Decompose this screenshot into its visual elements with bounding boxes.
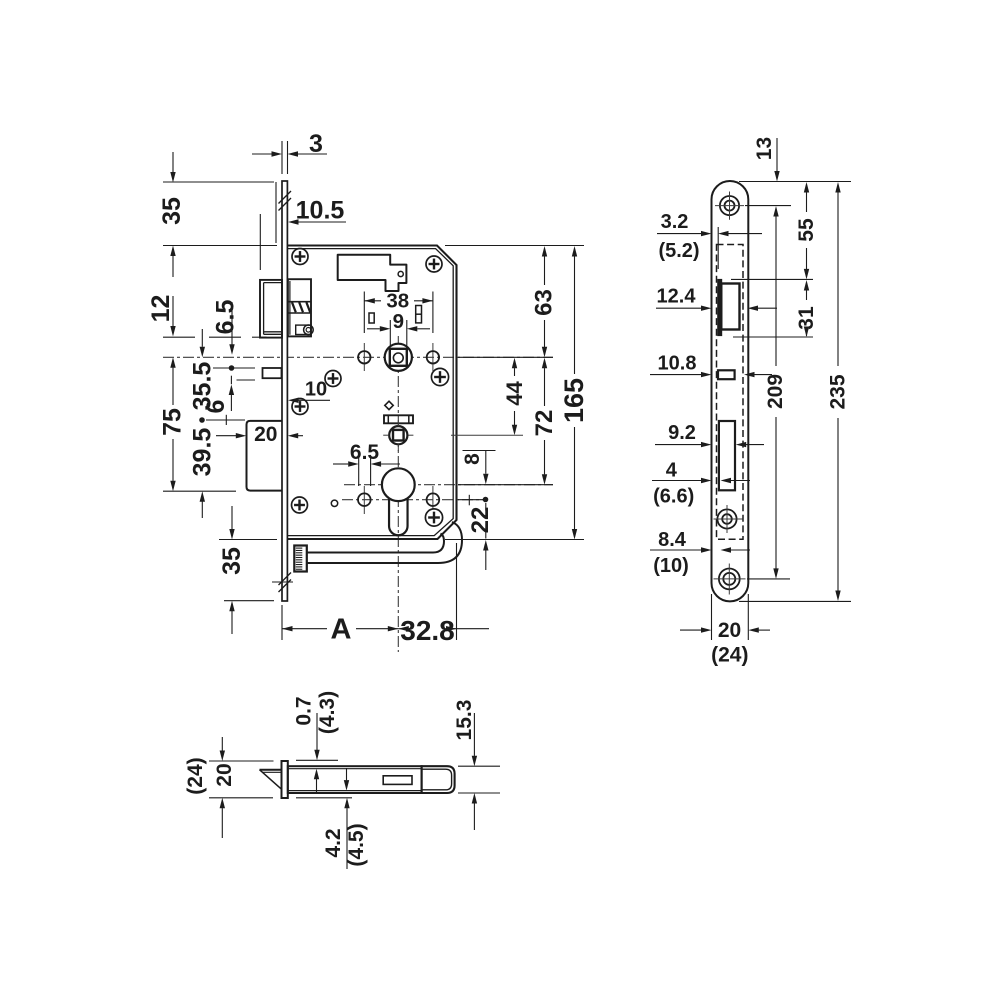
svg-text:(4.5): (4.5) xyxy=(345,823,368,866)
svg-text:22: 22 xyxy=(467,507,494,534)
svg-text:(6.6): (6.6) xyxy=(653,486,694,508)
follower outer circle xyxy=(385,344,412,371)
dim 72 xyxy=(542,358,547,369)
auxiliary pin xyxy=(263,368,282,378)
box 10.8 xyxy=(718,370,735,379)
centerline left circle xyxy=(363,343,365,371)
keeper box xyxy=(721,284,739,330)
lower spindle square xyxy=(393,430,404,441)
dim 13 arrow xyxy=(776,138,778,171)
svg-text:(10): (10) xyxy=(653,555,689,577)
dim 38 ext lines xyxy=(363,292,365,334)
svg-text:209: 209 xyxy=(764,374,787,409)
dim 35.5 dot lower xyxy=(200,418,205,423)
follower inner circle xyxy=(393,353,403,363)
screw near 10 label upper xyxy=(325,371,341,387)
latch body xyxy=(288,766,422,793)
dim 4.2 arrow up xyxy=(344,798,349,809)
centerline right circle xyxy=(432,343,434,371)
rod outer line xyxy=(307,522,462,563)
dim 8 line xyxy=(463,450,496,452)
faceplate break marks bottom xyxy=(279,580,292,593)
screw bottom-right xyxy=(425,509,442,526)
dim 35.5 line xyxy=(213,367,255,369)
dim 20 arrows xyxy=(216,435,236,437)
latch bolt nose xyxy=(260,280,282,338)
svg-text:165: 165 xyxy=(559,378,589,423)
svg-text:10.5: 10.5 xyxy=(296,197,345,225)
faceplate section xyxy=(282,761,288,798)
dim 35 top arrows xyxy=(172,152,174,172)
dim 75 arrows xyxy=(170,357,175,368)
latch body inner bottom xyxy=(288,790,422,792)
dashed case rect xyxy=(717,245,744,540)
centerline lower circles xyxy=(342,499,484,501)
dim A ext xyxy=(281,605,283,640)
tick lower xyxy=(225,415,227,425)
circle line ext right xyxy=(458,499,483,501)
dim 20 ext xyxy=(711,594,713,640)
svg-text:(5.2): (5.2) xyxy=(658,240,699,262)
dim 32.8 ext xyxy=(456,543,458,640)
svg-text:10.8: 10.8 xyxy=(658,353,697,375)
dim 8.4 arrows xyxy=(650,549,701,551)
latch housing xyxy=(288,279,311,336)
dim 8 arrow xyxy=(483,474,488,485)
latch bevel second line xyxy=(263,771,282,773)
dim 12 arrow xyxy=(172,296,174,327)
diamond xyxy=(385,401,393,409)
svg-text:20: 20 xyxy=(254,423,277,446)
dim 9 arrows xyxy=(367,328,380,330)
svg-text:4.2: 4.2 xyxy=(322,828,345,857)
dim 4 arrows xyxy=(652,480,701,482)
dim 35 top datum xyxy=(163,181,274,183)
dim 20 ext bottom xyxy=(209,797,273,799)
dim 10.5 ext xyxy=(259,214,261,270)
dim 39.5 bottom arrow xyxy=(200,491,205,502)
svg-text:55: 55 xyxy=(795,218,818,242)
svg-text:(24): (24) xyxy=(711,644,748,667)
svg-text:(4.3): (4.3) xyxy=(316,691,339,734)
svg-text:39.5: 39.5 xyxy=(189,428,217,477)
dim 6 tick xyxy=(230,376,232,385)
plate top ext xyxy=(739,181,851,183)
dim 35.5 dot xyxy=(229,366,234,371)
end cap inner xyxy=(422,769,452,790)
svg-text:8.4: 8.4 xyxy=(658,529,687,551)
svg-text:6.5: 6.5 xyxy=(350,441,380,464)
svg-text:31: 31 xyxy=(795,306,818,330)
screw hole top xyxy=(720,196,739,215)
case top ext right xyxy=(445,245,584,247)
follower right circle xyxy=(427,351,439,363)
cylinder CL ext right xyxy=(458,484,553,486)
small part left xyxy=(369,313,374,323)
dim 38 line xyxy=(364,300,381,302)
dim 0.7 arrow up xyxy=(314,769,319,780)
screw near 10 label lower xyxy=(292,399,308,415)
screw top-left xyxy=(292,249,308,265)
dim 0.7 arrow down xyxy=(316,713,318,750)
latch body hole xyxy=(383,776,412,785)
dim 4.2 ext xyxy=(296,797,352,799)
latch bevel top xyxy=(260,769,282,771)
datum drop line xyxy=(275,182,277,243)
screw bottom CL ext xyxy=(747,578,790,580)
svg-text:12.4: 12.4 xyxy=(657,285,697,307)
screw hole mid xyxy=(717,509,736,528)
dim 209 xyxy=(773,206,778,217)
svg-text:63: 63 xyxy=(531,289,558,316)
dim 63 xyxy=(542,246,547,257)
centerline right lower circle xyxy=(432,486,434,514)
latch bottom ext xyxy=(163,336,195,338)
svg-text:0.7: 0.7 xyxy=(293,696,316,725)
faceplate bottom ext xyxy=(224,600,274,602)
faceplate break marks top xyxy=(279,191,292,204)
svg-text:13: 13 xyxy=(753,137,776,160)
serrated block xyxy=(294,546,307,572)
svg-text:9.2: 9.2 xyxy=(668,422,696,444)
dim 6.5 upper arrow xyxy=(231,302,233,345)
dim 0.7 ext xyxy=(296,759,338,761)
svg-text:15.3: 15.3 xyxy=(453,700,476,741)
dim 31 xyxy=(804,280,809,291)
screw hole bottom xyxy=(719,569,740,590)
deadbolt xyxy=(247,421,283,491)
screw right-middle xyxy=(431,368,448,385)
lock case outline xyxy=(288,246,457,540)
cylinder right circle xyxy=(427,493,440,506)
screw mid crosshair xyxy=(714,518,743,520)
case top ext left xyxy=(163,245,277,247)
dim 35.5 line lower xyxy=(206,419,245,421)
dim 3.2 arrows xyxy=(657,233,701,235)
svg-text:6: 6 xyxy=(202,400,230,414)
dim 22 dot xyxy=(483,497,488,502)
latch roller xyxy=(304,325,314,335)
dim 4 ext xyxy=(718,474,720,487)
tick on circle ext xyxy=(468,495,470,506)
svg-text:72: 72 xyxy=(531,410,558,437)
dim 10.5 arrow xyxy=(288,219,299,224)
dim 10 arrow xyxy=(288,398,299,403)
keeper top ext xyxy=(731,278,813,280)
strike plate outline xyxy=(712,181,749,601)
dim A line xyxy=(282,628,327,630)
latch roller housing xyxy=(296,325,311,334)
end cap xyxy=(422,766,455,793)
small part right xyxy=(416,306,422,323)
svg-text:6.5: 6.5 xyxy=(212,300,240,335)
slot 9.2 xyxy=(719,421,735,490)
deadbolt bottom ext xyxy=(163,490,236,492)
dim 55 xyxy=(804,182,809,193)
lock case inner line xyxy=(288,249,454,536)
svg-text:A: A xyxy=(331,614,352,646)
keeper bottom ext xyxy=(733,336,813,338)
cylinder left circle xyxy=(358,493,371,506)
screw top CL ext xyxy=(745,205,791,207)
svg-text:(24): (24) xyxy=(184,757,207,794)
follower left circle xyxy=(358,351,370,363)
dim 44 xyxy=(512,358,517,369)
stamped cutout xyxy=(338,255,407,291)
faceplate xyxy=(282,181,287,601)
svg-text:75: 75 xyxy=(159,408,187,436)
screw bottom crosshair xyxy=(714,578,746,580)
dim 9 ext lines xyxy=(389,320,391,346)
latch body inner top xyxy=(288,768,422,770)
screw bottom-left xyxy=(292,497,308,513)
svg-text:8: 8 xyxy=(461,453,484,465)
keeper flange xyxy=(718,280,722,336)
dim 12.4 arrows xyxy=(656,307,701,309)
bar rect xyxy=(384,415,413,423)
dim 4.2 arrow down xyxy=(344,780,349,791)
case bottom ext left xyxy=(219,539,277,541)
rod inner line xyxy=(307,534,444,553)
follower square xyxy=(390,349,407,366)
dim 3.2 ext xyxy=(717,227,719,269)
dim 3 arrows xyxy=(252,153,272,155)
svg-text:9: 9 xyxy=(393,310,404,333)
centerline vertical main xyxy=(397,336,399,652)
dim 6 arrow xyxy=(229,385,234,396)
svg-text:10: 10 xyxy=(305,379,327,401)
svg-text:44: 44 xyxy=(502,381,527,406)
dim 6.5 lower arrows xyxy=(333,463,348,465)
follower CL ext right xyxy=(458,356,553,358)
plate bottom ext xyxy=(739,600,851,602)
dim 6 line xyxy=(237,379,256,381)
dim 22 line xyxy=(485,503,487,511)
centerline cylinder horizontal xyxy=(344,484,553,486)
dim 165 xyxy=(572,246,577,257)
centerline follower horizontal xyxy=(163,356,553,358)
lower spindle circle xyxy=(389,426,407,444)
dim 35 bottom arrows xyxy=(231,506,233,530)
case bottom ext right xyxy=(445,539,584,541)
cutout pivot hole xyxy=(398,271,403,276)
svg-text:20: 20 xyxy=(213,763,236,786)
centerline left lower circle xyxy=(363,486,365,514)
latch bevel hypotenuse xyxy=(260,770,282,790)
svg-text:4: 4 xyxy=(666,459,678,481)
dim 3 ext lines xyxy=(281,141,283,174)
dim 20 arrows xyxy=(680,629,701,631)
tiny circle xyxy=(331,500,337,506)
svg-text:35: 35 xyxy=(218,547,246,575)
profile cylinder circle xyxy=(382,468,415,501)
screw top-right xyxy=(426,256,442,272)
screw top crosshair xyxy=(715,205,744,207)
dim 15.3 ext bottom xyxy=(458,792,500,794)
profile cylinder stem xyxy=(389,498,408,535)
dim 10.8 arrows xyxy=(650,374,701,376)
dim 20 ext top xyxy=(209,760,274,762)
dim 6.5 lower ext xyxy=(358,456,360,486)
svg-text:35: 35 xyxy=(158,197,186,225)
faceplate break tick xyxy=(272,581,293,583)
svg-text:3.2: 3.2 xyxy=(661,211,689,233)
dim 15.3 ext top xyxy=(458,765,500,767)
svg-text:235: 235 xyxy=(827,374,850,409)
dim 39.5 top arrow xyxy=(200,347,205,358)
latch spring xyxy=(289,301,311,303)
ext to dim 44 xyxy=(451,434,523,436)
svg-text:20: 20 xyxy=(718,619,741,642)
dim 9.2 arrows xyxy=(655,444,701,446)
dim 235 xyxy=(835,182,840,193)
svg-text:12: 12 xyxy=(147,295,175,323)
dim 22 arrow xyxy=(483,540,488,551)
